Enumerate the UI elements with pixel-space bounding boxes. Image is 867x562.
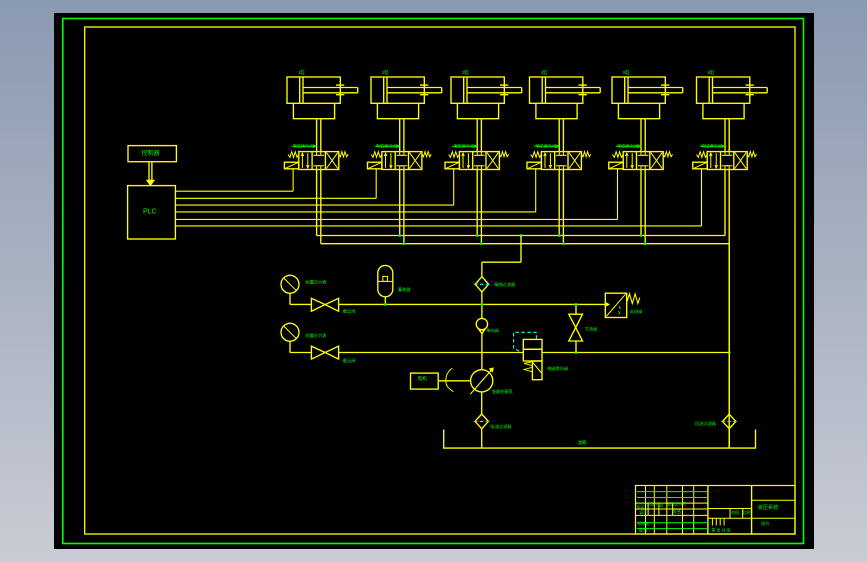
wire PLC to valve V5 solenoid — [175, 218, 617, 220]
svg-text:变量柱塞泵: 变量柱塞泵 — [492, 388, 513, 395]
valve V1 right spring — [339, 152, 348, 157]
motor shaft — [438, 380, 470, 382]
title block main verticals — [707, 486, 709, 535]
cylinder C5 piston — [624, 77, 626, 103]
controller box — [128, 146, 176, 162]
svg-text:耐震压力表: 耐震压力表 — [306, 332, 328, 339]
wire PLC to valve V4 solenoid — [175, 211, 535, 213]
motor box — [411, 373, 439, 389]
valve V4 right cell crossed arrows — [569, 153, 580, 169]
pump supply riser to pressure bus — [520, 236, 522, 263]
valve V1 right cell crossed arrows — [326, 153, 337, 169]
return drop line — [728, 244, 730, 415]
cylinder C1 bracket — [293, 103, 334, 118]
valve V5 solenoid — [609, 162, 623, 169]
cylinder C4 body — [530, 77, 583, 103]
valve V4 right spring — [581, 152, 590, 157]
svg-text:6缸: 6缸 — [708, 69, 716, 75]
suction filter — [475, 414, 488, 429]
svg-text:5缸: 5缸 — [623, 69, 631, 75]
pipe valve V6 T-port down — [728, 170, 730, 449]
svg-text:回油过滤器: 回油过滤器 — [695, 420, 717, 427]
valve V4 center blocked ports — [558, 152, 560, 156]
wire PLC to valve V3 solenoid — [175, 204, 453, 206]
svg-text:处数: 处数 — [647, 502, 655, 507]
svg-text:更改文件号: 更改文件号 — [667, 501, 686, 506]
svg-text:电机: 电机 — [418, 375, 428, 382]
pressure gauge G1 — [281, 275, 299, 293]
svg-text:签名: 签名 — [672, 508, 681, 515]
coupling — [446, 370, 450, 388]
svg-text:标准化: 标准化 — [637, 520, 649, 526]
valve V6 left spring — [697, 152, 708, 158]
valve V5 center blocked ports — [640, 152, 642, 156]
arrow controller to PLC — [148, 162, 150, 181]
pressure gauge G2 — [281, 323, 299, 341]
pipe A cylinder C4 to valve V4 — [558, 119, 560, 152]
shut-off valve K1 — [311, 298, 325, 311]
svg-text:分区: 分区 — [656, 503, 664, 508]
cylinder C6 bracket — [703, 103, 744, 118]
svg-text:阶段: 阶段 — [732, 510, 740, 515]
pipe valve V4 P-port down — [558, 170, 560, 236]
relief valve — [605, 293, 626, 317]
inline filter — [475, 277, 488, 292]
svg-text:控制器: 控制器 — [142, 149, 160, 157]
cylinder C2 body — [371, 77, 424, 103]
svg-text:3缸: 3缸 — [462, 69, 470, 75]
unloading valve pilot dashed — [514, 332, 537, 352]
valve V3 body — [459, 152, 499, 170]
lower pressure line — [339, 352, 524, 354]
PLC box — [128, 186, 176, 239]
pipe B cylinder C2 to valve V2 — [403, 119, 405, 152]
svg-text:设计: 设计 — [639, 509, 647, 514]
svg-text:节流阀: 节流阀 — [585, 326, 598, 333]
valve V6 right cell crossed arrows — [735, 153, 746, 169]
svg-text:吸油过滤器: 吸油过滤器 — [490, 423, 512, 430]
pipe A cylinder C6 to valve V6 — [724, 119, 726, 152]
pressure bus line — [317, 235, 725, 237]
pipe valve V1 T-port down — [320, 170, 322, 244]
valve V1 solenoid — [284, 162, 298, 169]
pipe A cylinder C1 to valve V1 — [316, 119, 318, 152]
valve V4 solenoid — [527, 162, 541, 169]
valve V1 left cell arrows — [301, 153, 303, 168]
valve V2 center blocked ports — [399, 152, 401, 156]
cylinder C1 body — [287, 77, 340, 103]
valve V6 body — [707, 152, 747, 170]
valve V1 left spring — [288, 152, 299, 158]
pipe A cylinder C3 to valve V3 — [476, 119, 478, 152]
svg-text:蓄能器: 蓄能器 — [398, 286, 411, 293]
cylinder C5 bracket — [618, 103, 659, 118]
cylinder C6 rod — [713, 87, 768, 89]
title block middle column — [708, 508, 752, 510]
pipe valve V1 P-port down — [316, 170, 318, 236]
valve V2 left cell arrows — [385, 153, 387, 168]
valve V6 center blocked ports — [724, 152, 726, 156]
wire PLC to valve V1 solenoid — [175, 190, 293, 192]
pipe B cylinder C4 to valve V4 — [562, 119, 564, 152]
valve V6 left cell arrows — [710, 153, 712, 168]
junction dots return bus — [403, 242, 406, 245]
pipe B cylinder C1 to valve V1 — [320, 119, 322, 152]
filter to line — [481, 292, 483, 318]
cylinder C3 gland ticks — [500, 84, 508, 86]
svg-text:标记: 标记 — [637, 504, 645, 509]
valve V1 center blocked ports — [316, 152, 318, 156]
valve V5 left spring — [613, 152, 624, 158]
valve V3 solenoid — [445, 162, 459, 169]
valve V2 body — [382, 152, 422, 170]
pipe valve V2 T-port down — [403, 170, 405, 244]
svg-text:单向阀: 单向阀 — [486, 327, 499, 334]
outer green frame — [63, 19, 804, 544]
cylinder C5 rod — [628, 87, 683, 89]
junction dots pressure bus — [398, 234, 401, 237]
pipe B cylinder C6 to valve V6 — [728, 119, 730, 152]
valve V3 right cell crossed arrows — [487, 153, 498, 169]
gauge G2 stem — [289, 341, 291, 352]
inner yellow frame — [85, 27, 795, 534]
svg-text:截止阀: 截止阀 — [343, 357, 356, 364]
pipe valve V5 T-port down — [644, 170, 646, 244]
pump suction — [481, 392, 483, 414]
valve V6 right spring — [747, 152, 756, 157]
pipe B cylinder C5 to valve V5 — [644, 119, 646, 152]
cylinder C4 bracket — [536, 103, 577, 118]
cylinder C4 piston — [541, 77, 543, 103]
valve V5 body — [623, 152, 663, 170]
svg-text:批准: 批准 — [638, 527, 648, 534]
valve V3 left spring — [449, 152, 460, 158]
cylinder C2 gland ticks — [420, 84, 428, 86]
cylinder C2 bracket — [377, 103, 418, 118]
cylinder C5 gland ticks — [661, 84, 669, 86]
svg-text:↓: ↓ — [711, 525, 713, 530]
svg-text:比例: 比例 — [743, 510, 751, 515]
wire PLC to valve V6 solenoid — [175, 225, 701, 227]
pipe valve V3 T-port down — [480, 170, 482, 244]
cylinder C1 gland ticks — [336, 84, 344, 86]
cylinder C4 rod — [546, 87, 601, 89]
return filter — [723, 414, 736, 428]
pipe A cylinder C2 to valve V2 — [399, 119, 401, 152]
svg-text:油箱: 油箱 — [578, 439, 587, 446]
cylinder C2 rod — [387, 87, 442, 89]
cylinder C6 body — [697, 77, 750, 103]
throttle valve — [575, 304, 577, 314]
pipe valve V5 P-port down — [640, 170, 642, 236]
svg-text:第 张 共 张: 第 张 共 张 — [711, 527, 730, 533]
cylinder C6 piston — [708, 77, 710, 103]
cylinder C1 rod — [303, 87, 358, 89]
svg-text:精细过滤器: 精细过滤器 — [494, 281, 516, 288]
valve V2 left spring — [371, 152, 382, 158]
title block outer — [636, 486, 796, 535]
title block left grid — [645, 486, 647, 535]
valve V2 right spring — [422, 152, 431, 157]
shut-off valve K2 — [311, 346, 325, 359]
valve V5 right cell crossed arrows — [651, 153, 662, 169]
valve V4 left spring — [531, 152, 542, 158]
oil tank — [444, 430, 756, 449]
valve V1 body — [299, 152, 339, 170]
accumulator — [378, 265, 393, 296]
title block green rule lines — [637, 491, 708, 493]
valve V3 center blocked ports — [476, 152, 478, 156]
svg-text:PLC: PLC — [143, 209, 157, 216]
wire PLC to valve V2 solenoid — [175, 197, 376, 199]
pipe valve V6 P-port down — [724, 170, 726, 236]
pipe valve V3 P-port down — [476, 170, 478, 236]
valve V5 right spring — [663, 152, 672, 157]
pipe valve V2 P-port down — [399, 170, 401, 236]
cylinder C5 body — [612, 77, 665, 103]
unloading valve spring — [524, 362, 532, 366]
cylinder C3 piston — [463, 77, 465, 103]
cylinder C3 rod — [467, 87, 522, 89]
valve V4 body — [541, 152, 581, 170]
svg-text:液压系统: 液压系统 — [758, 503, 779, 511]
svg-text:耐震压力表: 耐震压力表 — [306, 278, 328, 285]
valve V2 right cell crossed arrows — [410, 153, 421, 169]
unloading valve body — [523, 339, 542, 349]
valve V3 right spring — [499, 152, 508, 157]
svg-text:4缸: 4缸 — [541, 69, 549, 75]
title block right column rows — [752, 499, 795, 501]
cylinder C6 gland ticks — [746, 84, 754, 86]
pipe B cylinder C3 to valve V3 — [480, 119, 482, 152]
valve V5 left cell arrows — [626, 153, 628, 168]
pipe valve V4 T-port down — [562, 170, 564, 244]
svg-text:2缸: 2缸 — [382, 69, 390, 75]
check valve — [476, 318, 487, 329]
svg-text:截止阀: 截止阀 — [343, 307, 356, 314]
accumulator line — [339, 303, 606, 305]
check valve to pump — [481, 334, 483, 370]
variable pump — [471, 370, 493, 392]
cylinder C3 body — [451, 77, 504, 103]
relief valve spring — [627, 294, 640, 304]
valve V4 left cell arrows — [544, 153, 546, 168]
svg-text:电磁换向阀: 电磁换向阀 — [547, 365, 568, 372]
cylinder C2 piston — [383, 77, 385, 103]
valve V6 solenoid — [693, 162, 707, 169]
gauge G1 stem — [289, 293, 291, 304]
cylinder C3 bracket — [457, 103, 498, 118]
svg-text:1缸: 1缸 — [298, 69, 306, 75]
cylinder C1 piston — [299, 77, 301, 103]
return bus line — [321, 243, 729, 245]
valve V2 solenoid — [368, 162, 382, 169]
cylinder C4 gland ticks — [579, 84, 587, 86]
valve V3 left cell arrows — [462, 153, 464, 168]
pipe A cylinder C5 to valve V5 — [640, 119, 642, 152]
svg-text:图号: 图号 — [761, 520, 769, 526]
svg-text:溢流阀: 溢流阀 — [630, 308, 643, 315]
